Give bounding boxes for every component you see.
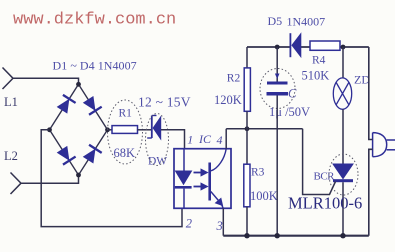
wire top rail left corner down to R2 — [246, 47, 248, 68]
svg-text:1μ /50V: 1μ /50V — [269, 105, 310, 119]
LED inside optocoupler — [175, 149, 192, 209]
node bottom R3 — [244, 233, 249, 238]
node bridge top — [76, 82, 81, 87]
wire DW to IC pin 1 — [161, 130, 185, 149]
wire node horizontal (pin4 to gate corner) — [226, 128, 302, 130]
terminal L1 arrow — [3, 68, 14, 90]
zener diode DW — [147, 116, 161, 140]
resistor R1 — [112, 126, 138, 134]
lamp ZD — [333, 78, 351, 109]
svg-text:68K: 68K — [114, 146, 136, 160]
svg-text:4: 4 — [217, 133, 223, 147]
diode D2 (top-right edge) — [82, 96, 102, 115]
diode D1 (top-left edge) — [56, 95, 76, 114]
svg-text:R4: R4 — [312, 55, 326, 67]
wire C bottom lead — [276, 96, 278, 236]
svg-text:12 ~ 15V: 12 ~ 15V — [138, 95, 191, 110]
diode D5 — [290, 33, 300, 57]
wire plug top prong — [369, 47, 373, 140]
wire pin 4 up to node — [225, 129, 227, 149]
resistor R4 — [310, 41, 340, 50]
wire node to R3 — [246, 129, 248, 164]
bridge rectifier wires (diamond) — [50, 84, 108, 175]
wire bridge right to R1 — [108, 129, 113, 131]
node bridge left — [47, 127, 52, 132]
svg-text:120K: 120K — [214, 93, 242, 107]
diode D3 (bottom-left edge) — [56, 146, 76, 165]
svg-text:C: C — [288, 87, 297, 101]
wire lamp column top — [342, 47, 344, 78]
thyristor BCR — [333, 164, 353, 182]
svg-text:L1: L1 — [4, 95, 18, 109]
phototransistor — [208, 149, 226, 209]
wire BCR gate path — [303, 129, 336, 195]
wire bridge left to bottom-left rail — [41, 130, 182, 227]
node bridge bottom — [76, 173, 81, 178]
wire plug bottom prong to bottom rail — [369, 149, 373, 235]
svg-text:R1: R1 — [119, 108, 133, 120]
light arrows — [194, 169, 208, 190]
dashed ellipse around BCR — [329, 154, 358, 195]
svg-text:1N4007: 1N4007 — [287, 15, 326, 29]
svg-text:1: 1 — [187, 133, 193, 147]
svg-text:IC: IC — [198, 132, 212, 146]
node bottom C — [275, 233, 280, 238]
node bottom BCR — [340, 233, 345, 238]
resistor R2 — [244, 68, 250, 111]
svg-text:R3: R3 — [251, 167, 265, 179]
svg-text:L2: L2 — [4, 149, 18, 163]
node R2/R3 junction — [245, 126, 250, 131]
svg-text:100K: 100K — [250, 189, 278, 203]
wire R3 to bottom rail — [246, 207, 248, 236]
resistor R3 — [244, 164, 250, 207]
op-amp U1: optocoupler IC box — [174, 149, 231, 209]
terminal L2 arrow — [11, 173, 22, 195]
svg-text:ZD: ZD — [354, 73, 370, 87]
wire pin 2 handled with left rail; wire pin 3 down — [222, 208, 224, 235]
wire L1 to bridge top — [13, 78, 79, 84]
wire L2 to bridge bottom — [21, 175, 79, 183]
wire C top lead — [276, 47, 278, 82]
plug body — [373, 133, 395, 157]
svg-text:BCR: BCR — [314, 171, 336, 183]
svg-text:D5: D5 — [268, 14, 283, 28]
svg-text:D1 ~ D4 1N4007: D1 ~ D4 1N4007 — [53, 59, 137, 73]
dashed circle around C — [260, 69, 295, 109]
top rail — [247, 46, 369, 48]
diode D4 (bottom-right edge) — [82, 145, 102, 164]
svg-text:R2: R2 — [227, 73, 241, 85]
wire lamp to BCR — [342, 109, 344, 164]
wire R2 to node — [246, 111, 248, 129]
node top rail / C — [275, 45, 280, 50]
bottom rail right — [223, 235, 368, 237]
svg-text:3: 3 — [216, 219, 223, 233]
svg-text:MLR100-6: MLR100-6 — [288, 194, 362, 213]
capacitor C — [267, 74, 289, 96]
node bridge right — [105, 127, 110, 132]
svg-text:2: 2 — [186, 217, 192, 231]
wire BCR cathode to bottom rail — [342, 182, 344, 236]
dashed ellipse around R1 — [108, 100, 143, 164]
svg-text:www.dzkfw.com.cn: www.dzkfw.com.cn — [13, 11, 176, 30]
node top rail / lamp column — [341, 45, 346, 50]
wire R1 to DW — [138, 129, 152, 131]
dashed ellipse around DW — [146, 114, 169, 166]
svg-text:510K: 510K — [302, 69, 330, 83]
